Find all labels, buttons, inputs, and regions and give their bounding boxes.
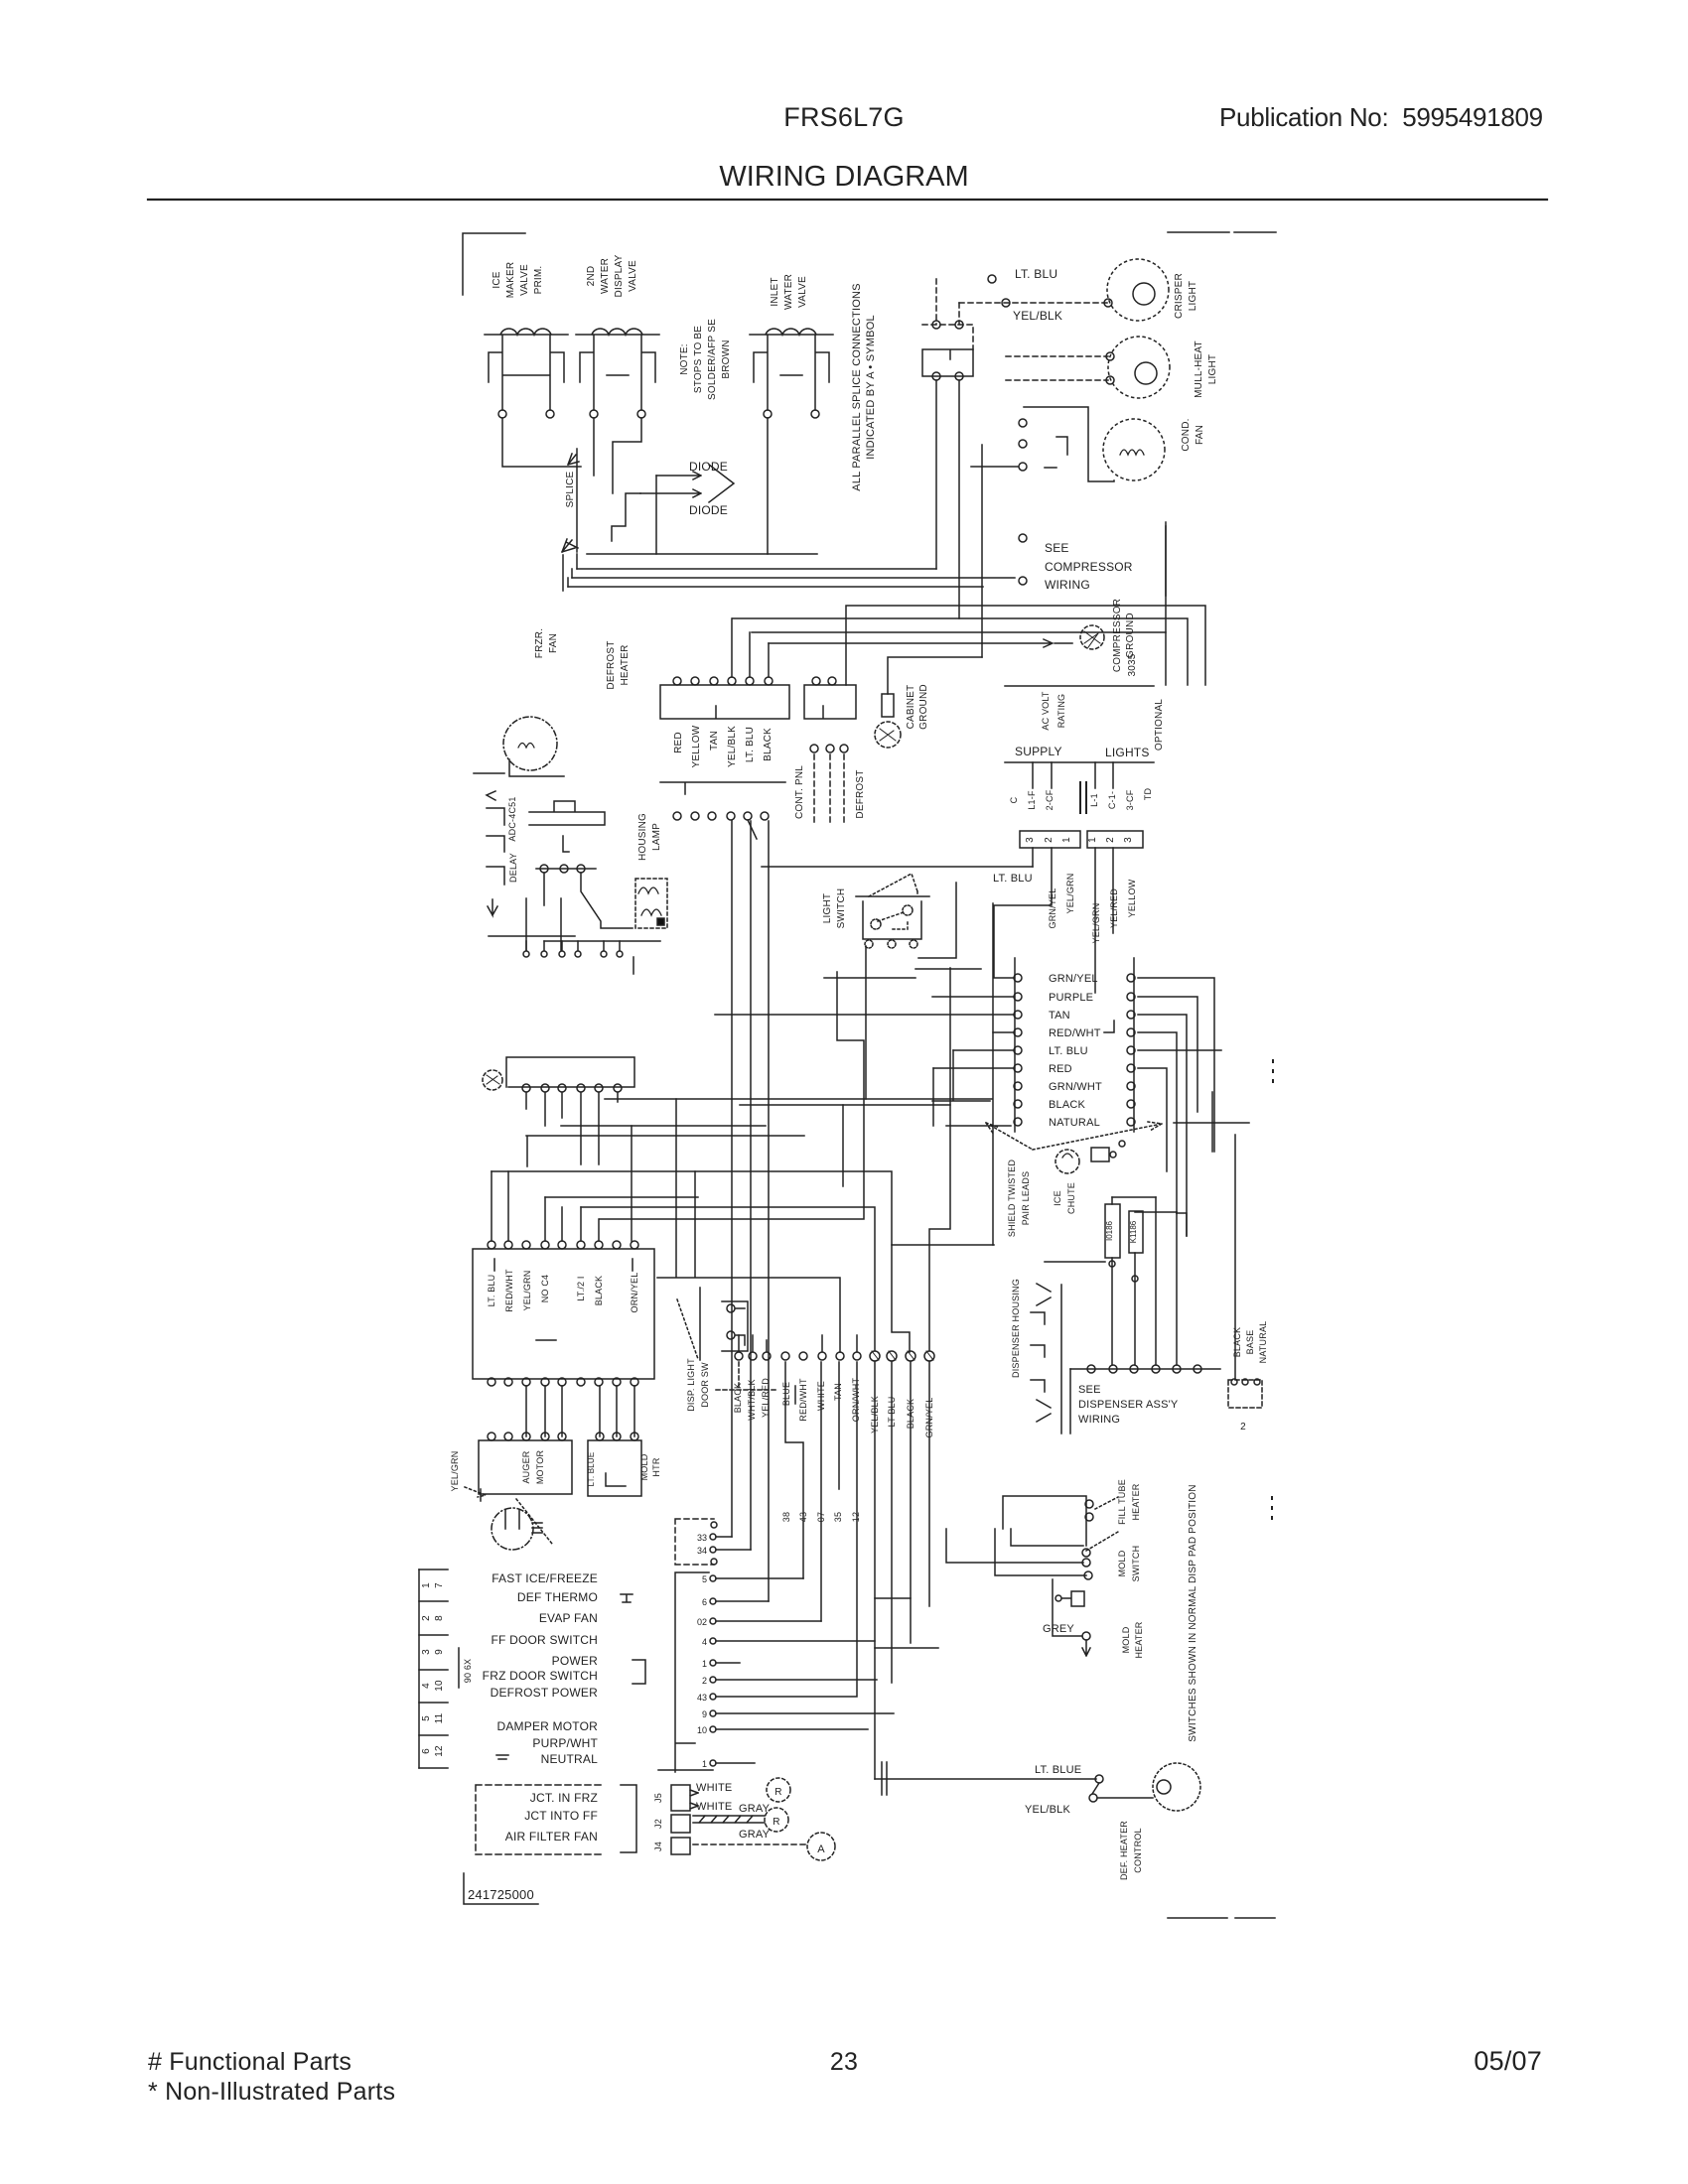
power board pin stubs [526,1093,618,1164]
relay drop wires [544,873,633,928]
table pin right NATURAL [1127,1118,1135,1126]
svg-text:8: 8 [434,1615,445,1621]
svg-text:FAST ICE/FREEZE: FAST ICE/FREEZE [492,1571,598,1585]
svg-text:AC VOLT: AC VOLT [1041,691,1051,731]
svg-text:A: A [817,1843,825,1855]
table pin left TAN [1014,1011,1022,1019]
auger board box [479,1440,572,1494]
control board top pin wires [492,1137,599,1241]
jct bracket [621,1785,636,1852]
svg-text:BLACK: BLACK [733,1383,743,1414]
svg-text:1: 1 [702,1759,707,1769]
svg-text:12: 12 [434,1745,445,1757]
svg-text:POWER: POWER [552,1654,598,1668]
table pin left RED/WHT [1014,1028,1022,1036]
relay terminal row [536,868,596,870]
red/wht bracket [1104,1021,1114,1032]
svg-text:LT./2 I: LT./2 I [576,1276,586,1300]
svg-text:INDICATED BY A • SYMBOL: INDICATED BY A • SYMBOL [865,315,877,460]
svg-text:JCT INTO FF: JCT INTO FF [524,1809,598,1823]
light switch terminals [865,905,917,948]
svg-text:MOLD: MOLD [1117,1550,1127,1576]
lower pin row [523,951,529,957]
svg-text:LT. BLUE: LT. BLUE [587,1452,596,1487]
svg-text:ORN/YEL: ORN/YEL [630,1273,639,1313]
table pin left BLACK [1014,1100,1022,1108]
svg-text:TAN: TAN [1049,1010,1070,1022]
harness wire p12 [716,1762,755,1764]
dispenser plug dashed box [1228,1380,1262,1408]
svg-text:4: 4 [421,1683,432,1689]
relay bracket [1045,437,1067,468]
dispenser right horiz [1174,1092,1249,1152]
svg-text:11: 11 [434,1712,445,1723]
cond fan feed wire [1024,407,1114,481]
svg-text:VALVE: VALVE [797,276,808,308]
svg-text:C-1-: C-1- [1107,791,1117,809]
table pin right GRN/WHT [1127,1082,1135,1090]
svg-text:HOUSING: HOUSING [637,813,648,861]
svg-text:WATER: WATER [600,258,611,294]
svg-text:LAMP: LAMP [651,823,662,851]
svg-text:J5: J5 [653,1793,663,1803]
svg-text:WHITE: WHITE [696,1782,732,1794]
ff door switch drop wires [936,380,959,618]
nested jog [1177,1213,1187,1236]
coil2 lead wires [594,418,641,493]
compressor relay terminals [1019,419,1027,427]
mesh wire h9 [892,1245,910,1352]
border mark top left [1168,231,1229,233]
svg-text:DIODE: DIODE [689,460,728,474]
svg-text:DISPENSER HOUSING: DISPENSER HOUSING [1011,1279,1021,1378]
light switch box [856,896,929,939]
slashed pins [870,1351,880,1361]
housing drop wires [732,821,769,1601]
corner bracket [463,233,525,295]
jack J2 box [671,1815,690,1833]
svg-text:WIRING DIAGRAM: WIRING DIAGRAM [719,161,968,193]
svg-text:YEL/RED: YEL/RED [1109,888,1119,928]
svg-text:ORN/WHT: ORN/WHT [851,1378,861,1423]
ellipsis dots lower [1271,1497,1273,1519]
pin ladder rail [418,1570,420,1768]
defrost thermostat connector box [804,685,856,719]
mesh vertical v4 [785,1362,803,1578]
harness wire p6 [716,1640,875,1642]
svg-text:R: R [773,1817,779,1828]
svg-text:L-1: L-1 [1089,793,1099,807]
svg-text:PURPLE: PURPLE [1049,992,1093,1004]
svg-text:2ND: 2ND [586,266,597,287]
icemaker board pins [596,1433,604,1440]
svg-text:DEFROST: DEFROST [855,769,866,818]
dispenser row bend [1069,1369,1071,1433]
thermistor box [1091,1148,1109,1161]
svg-text:10: 10 [434,1680,445,1692]
svg-text:GRAY: GRAY [739,1829,771,1841]
paddle switch wires [1045,1197,1112,1262]
svg-text:RED: RED [1049,1063,1072,1075]
svg-text:YEL/RED: YEL/RED [761,1378,771,1418]
disp housing vertical [699,1288,701,1360]
harness wire p1 [716,1536,732,1538]
cabinet ground wire [888,657,982,694]
table left wires [715,898,1052,1068]
control board bottom pins [488,1378,495,1386]
control board bottom pin wires [526,1386,634,1436]
housing switch terminals [1082,1549,1090,1557]
svg-text:WHITE: WHITE [816,1381,826,1411]
svg-text:CRISPER: CRISPER [1174,273,1185,319]
svg-text:241725000: 241725000 [468,1887,534,1902]
mesh wire h3 [561,1125,766,1127]
svg-text:2: 2 [1105,837,1116,843]
dispenser brackets [1031,1312,1045,1392]
svg-text:3: 3 [1123,837,1134,843]
supply box [1005,686,1154,762]
diode arrow wires [640,472,701,497]
left shell brackets [474,773,504,915]
svg-text:2: 2 [1240,1422,1246,1433]
disp housing dotted lever [677,1299,698,1359]
mullion lamp [1108,337,1170,398]
svg-text:YEL/BLK: YEL/BLK [1025,1804,1071,1816]
svg-text:RED/WHT: RED/WHT [798,1378,808,1422]
svg-text:05/07: 05/07 [1474,2046,1542,2076]
bus wire D [568,586,983,588]
mesh wire h7 [600,972,864,1219]
long wire mull feed [752,631,1166,633]
mesh wire h1c [842,1105,844,1186]
svg-text:23: 23 [830,2048,858,2076]
control board inner tick [494,1259,633,1340]
bus wire B [577,568,936,570]
relay bar [529,801,605,852]
splice vertical wire [576,449,578,552]
svg-text:RATING: RATING [1056,694,1066,729]
lt blu terminal [988,275,996,283]
svg-text:ICE: ICE [492,271,502,288]
coil 1 terminal left [498,410,506,418]
svg-text:DISPLAY: DISPLAY [614,254,625,297]
svg-text:SEE: SEE [1078,1384,1101,1396]
door sw dashed terminals [932,321,940,329]
svg-text:Publication No: 5995491809: Publication No: 5995491809 [1219,102,1543,132]
svg-text:LT. BLU: LT. BLU [487,1275,496,1307]
svg-text:FRS6L7G: FRS6L7G [783,102,904,132]
compressor right wire [1165,526,1167,685]
svg-text:SEE: SEE [1045,541,1069,555]
svg-text:34: 34 [697,1546,707,1556]
icemaker board box [588,1440,641,1496]
dispenser row pin stubs [739,1335,857,1351]
svg-text:ADC-4C51: ADC-4C51 [507,796,517,841]
paddle wire corners [1112,1197,1177,1212]
connector JP1 [1087,831,1143,848]
svg-text:DIODE: DIODE [689,503,728,517]
svg-text:FRZR.: FRZR. [534,628,545,658]
svg-text:TAN: TAN [709,731,720,751]
shield arrow left [986,1123,1033,1150]
svg-text:GRN/YEL: GRN/YEL [1048,888,1057,929]
compressor lower terminals [1019,534,1027,542]
svg-text:33: 33 [697,1533,707,1543]
svg-text:3035: 3035 [1127,653,1138,676]
svg-text:NOTE:: NOTE: [679,343,690,375]
svg-text:GROUND: GROUND [918,684,929,730]
svg-text:DISP. LIGHT: DISP. LIGHT [686,1358,696,1412]
jack A wire [693,1843,805,1845]
svg-text:5: 5 [421,1715,432,1721]
paddle switch drops [1112,1197,1177,1365]
dispenser solid stub [794,1386,796,1404]
mesh wire h8 [657,1099,840,1352]
svg-text:L1-F: L1-F [1027,790,1037,810]
jack R1 bubble [767,1778,790,1802]
harness rail dashed [675,1519,714,1565]
svg-text:BROWN: BROWN [721,340,732,378]
light switch lever [869,874,917,896]
svg-text:WIRING: WIRING [1045,578,1090,592]
table pin right RED/WHT [1127,1028,1135,1036]
svg-text:MULL-HEAT: MULL-HEAT [1194,341,1204,398]
harness wire p4 [716,1600,769,1602]
svg-text:TAN: TAN [833,1383,843,1401]
svg-text:9: 9 [434,1649,445,1655]
water valve coil 2 (display) [576,329,659,410]
svg-text:SWITCH: SWITCH [1131,1546,1141,1582]
svg-text:FAN: FAN [1195,425,1205,445]
svg-text:OPTIONAL: OPTIONAL [1154,699,1165,751]
supply pin stubs [1033,762,1113,788]
relay feed wire [971,466,1018,468]
svg-text:5: 5 [702,1574,707,1584]
svg-text:PRIM.: PRIM. [533,266,544,295]
coil1 lead wire [502,418,581,467]
svg-text:HTR: HTR [651,1457,661,1476]
svg-text:02: 02 [697,1617,707,1627]
table pin left GRN/WHT [1014,1082,1022,1090]
table pin right PURPLE [1127,993,1135,1001]
svg-text:4: 4 [702,1637,707,1647]
svg-text:MOTOR: MOTOR [535,1450,545,1485]
paddle switch 2 [1129,1211,1143,1253]
svg-text:2-CF: 2-CF [1045,789,1055,810]
compressor vertical wire [981,445,983,657]
evap fan motor [638,887,661,915]
svg-text:RED/WHT: RED/WHT [1049,1027,1101,1039]
dispenser pin row [1070,1368,1220,1370]
JP pin stubs [1033,848,1113,993]
disp housing box [722,1301,748,1351]
border mark top right [1234,231,1276,233]
mesh wire h6 [581,1207,875,1350]
coil 2 terminal left [590,410,598,418]
part number bracket [464,1873,538,1904]
svg-text:STOPS TO BE: STOPS TO BE [693,326,704,393]
thermostat dashed wires [814,754,844,824]
svg-text:JCT. IN FRZ: JCT. IN FRZ [530,1791,598,1805]
defrost connector pins [673,677,681,685]
water valve coil 3 (inlet) [750,329,833,410]
splice arrow upper [568,454,579,465]
jack A bubble [807,1833,835,1860]
defrost thermostat [1153,1763,1200,1811]
shield arrow right [1033,1122,1162,1150]
water valve coil 1 (icemaker primary) [485,329,568,410]
svg-text:FILL TUBE: FILL TUBE [1117,1479,1127,1525]
dispenser dashed label wire [738,1362,740,1388]
svg-text:COMPRESSOR: COMPRESSOR [1112,599,1123,672]
svg-text:LIGHTS: LIGHTS [1105,746,1150,759]
svg-text:J4: J4 [653,1842,663,1851]
svg-text:HEATER: HEATER [1131,1483,1141,1520]
svg-text:YEL/GRN: YEL/GRN [1065,874,1075,914]
bus joins [568,554,577,587]
thermostat pins bottom [810,745,818,752]
splice tick wire [562,555,564,591]
fill tube box [1003,1496,1086,1546]
svg-text:YEL/BLK: YEL/BLK [1013,309,1062,323]
lt blu long wire [762,866,1033,868]
auger motor circle [492,1508,533,1550]
mesh wire h4 [492,1171,994,1245]
coil 2 terminal right [637,410,645,418]
compressor ground lug [1080,625,1104,649]
svg-text:BLACK: BLACK [594,1276,604,1306]
table pin left PURPLE [1014,993,1022,1001]
svg-text:C: C [1009,796,1019,803]
bus wire C [572,577,1015,579]
diode feed wires [612,476,656,554]
svg-text:NO C4: NO C4 [540,1275,550,1303]
svg-text:VALVE: VALVE [519,264,530,296]
housing switch lever2 [1086,1532,1118,1551]
right edge vertical [1165,522,1167,596]
border mark bottom right [1235,1917,1275,1919]
svg-text:DOOR SW: DOOR SW [700,1362,710,1408]
svg-text:DAMPER MOTOR: DAMPER MOTOR [496,1719,598,1733]
mesh wire h5 [545,1196,698,1198]
mesh vertical v5 [821,1362,839,1621]
jct dashed box [476,1785,603,1854]
svg-text:SWITCH: SWITCH [836,888,847,929]
svg-text:YEL/BLK: YEL/BLK [727,726,738,767]
svg-text:CHUTE: CHUTE [1066,1182,1076,1214]
svg-text:2: 2 [702,1676,707,1686]
table pin right GRN/YEL [1127,974,1135,982]
svg-text:YEL/GRN: YEL/GRN [522,1271,532,1311]
jack J4 box [671,1838,690,1854]
diode chevron [709,465,734,502]
svg-text:YEL/GRN: YEL/GRN [450,1451,460,1492]
svg-text:MOLD: MOLD [1121,1626,1131,1653]
svg-text:6: 6 [702,1597,707,1607]
svg-text:SWITCHES SHOWN IN NORMAL DISP: SWITCHES SHOWN IN NORMAL DISP PAD POSITI… [1188,1484,1198,1741]
jack R2 bubble [765,1808,788,1832]
dispenser row left pins [735,1352,743,1360]
svg-text:TD: TD [1143,788,1153,801]
crisper lamp [1107,259,1169,321]
svg-text:1: 1 [1087,837,1098,843]
svg-text:INLET: INLET [770,277,780,306]
svg-text:35: 35 [833,1512,843,1522]
svg-text:MAKER: MAKER [505,262,516,299]
svg-text:DEFROST: DEFROST [606,640,617,689]
svg-text:GROUND: GROUND [1125,613,1136,658]
svg-text:BLACK: BLACK [1232,1327,1242,1358]
thermo switch gap [1092,1783,1099,1794]
crisper dashed wire [959,302,1108,304]
svg-text:6: 6 [421,1748,432,1754]
svg-text:COND.: COND. [1181,418,1192,451]
svg-text:K1186: K1186 [1129,1220,1138,1243]
table pin right TAN [1127,1011,1135,1019]
plug symbol [1062,1591,1084,1606]
svg-text:AUGER: AUGER [521,1450,531,1483]
svg-text:R: R [774,1787,781,1798]
control board box [473,1249,654,1379]
table pin right LT. BLU [1127,1046,1135,1054]
svg-text:GREY: GREY [1043,1623,1074,1635]
svg-text:* Non-Illustrated Parts: * Non-Illustrated Parts [148,2078,395,2106]
ellipsis dots upper [1272,1060,1274,1082]
table pin right RED [1127,1064,1135,1072]
mesh wire h1 [605,1098,992,1100]
connector key label [458,1648,460,1688]
defrost connector feed wires [732,618,769,677]
svg-text:PURP/WHT: PURP/WHT [532,1736,598,1750]
vertical drop from grn/yel [992,903,994,1245]
cross wires [489,898,660,950]
svg-text:1: 1 [702,1659,707,1669]
svg-text:FF DOOR SWITCH: FF DOOR SWITCH [492,1633,598,1647]
svg-text:LT. BLU: LT. BLU [993,873,1033,885]
cabinet ground lug [882,694,894,717]
svg-text:WHT/BLK: WHT/BLK [747,1379,757,1420]
svg-text:LIGHT: LIGHT [822,893,833,923]
svg-text:SHIELD TWISTED: SHIELD TWISTED [1007,1160,1017,1237]
thermostat feed wire [846,606,1205,685]
svg-text:SOLDER/AFP SE: SOLDER/AFP SE [707,319,718,400]
harness rail [675,1572,709,1772]
condenser fan motor [1103,419,1165,480]
svg-text:I0186: I0186 [1105,1220,1114,1241]
harness wire p10 [716,1712,894,1714]
svg-text:1: 1 [1061,837,1072,843]
dispenser right vertical [1234,1135,1236,1379]
svg-text:2: 2 [1044,837,1055,843]
gray twisted pair [693,1816,765,1823]
svg-text:GRN/YEL: GRN/YEL [1049,973,1098,985]
cap ticks [882,1762,887,1795]
harness wire p7 [716,1662,740,1664]
svg-text:YELLOW: YELLOW [1127,879,1137,917]
connector JP3 [1020,831,1080,848]
compressor ground wire [982,639,1072,647]
coil 1 terminal right [546,410,554,418]
svg-text:CONT. PNL: CONT. PNL [794,765,805,819]
auger leader dotted [516,1499,552,1544]
svg-text:LT. BLUE: LT. BLUE [1035,1764,1081,1776]
mesh vertical v7 [929,968,950,1350]
title rule [148,199,1547,201]
control board top pins [488,1241,495,1249]
svg-text:WHITE: WHITE [696,1801,732,1813]
mesh vertical v6 [631,1126,633,1241]
svg-text:AIR FILTER FAN: AIR FILTER FAN [505,1830,598,1843]
